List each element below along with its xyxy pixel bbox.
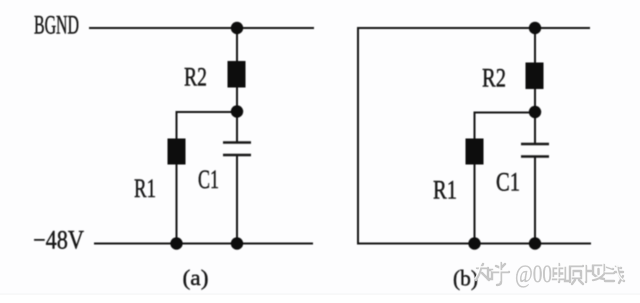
capacitor C1 (b) bottom plate — [521, 155, 549, 158]
resistor R1 (a) body — [168, 139, 186, 165]
junction dot (a) bottom C1 — [231, 237, 243, 249]
wire R2 bottom lead (a) — [236, 86, 238, 142]
wire R1 bottom lead (b) — [474, 165, 476, 244]
svg-text:C1: C1 — [496, 168, 520, 197]
junction dot (b) mid — [529, 106, 541, 118]
svg-text:BGND: BGND — [34, 11, 79, 40]
capacitor C1 (a) top plate — [223, 141, 251, 144]
resistor R2 (b) body — [526, 63, 544, 90]
wire branch to R1 (a) — [177, 112, 238, 139]
junction dot (a) top — [231, 22, 243, 34]
watermark emboss highlight — [475, 262, 623, 281]
wire R2 bottom lead (b) — [534, 88, 536, 146]
wire R2 top lead (a) — [236, 28, 238, 63]
wire C1 bottom lead (a) — [236, 155, 238, 244]
svg-text:@00: @00 — [515, 261, 552, 288]
svg-text:R2: R2 — [482, 64, 506, 93]
node -48V wire (a) bottom rail — [94, 243, 313, 245]
junction dot (b) bottom C1 — [529, 237, 541, 249]
bottom light band — [0, 295, 640, 303]
wire C1 bottom lead (b) — [534, 157, 536, 244]
watermark glyph dian — [553, 264, 569, 282]
wire branch to R1 (b) — [475, 113, 536, 140]
node BGND wire (a) top rail — [89, 27, 314, 29]
watermark glyph hu — [493, 263, 509, 285]
capacitor C1 (b) top plate — [521, 143, 549, 146]
wire (b) left rail box — [358, 28, 591, 244]
svg-text:(a): (a) — [183, 265, 209, 290]
svg-text:−48V: −48V — [33, 226, 84, 255]
svg-text:R1: R1 — [134, 174, 156, 203]
svg-text:(b): (b) — [453, 266, 478, 291]
svg-text:R2: R2 — [184, 63, 207, 92]
resistor R1 (b) body — [466, 139, 484, 165]
junction dot (a) mid — [231, 105, 243, 117]
svg-text:R1: R1 — [433, 176, 457, 205]
watermark glyph yuan — [570, 266, 583, 284]
capacitor C1 (a) bottom plate — [223, 154, 251, 157]
watermark glyph xian — [605, 266, 624, 283]
resistor R2 (a) body — [228, 61, 246, 88]
watermark zhihu — [476, 263, 509, 285]
watermark glyph tiao — [586, 265, 604, 282]
junction dot (a) bottom R1 — [170, 237, 182, 249]
watermark glyph zhi — [476, 264, 492, 280]
junction dot (b) bottom R1 — [468, 237, 480, 249]
wire R2 top lead (b) — [534, 28, 536, 64]
wire R1 bottom lead (a) — [176, 164, 178, 244]
svg-text:C1: C1 — [198, 165, 219, 194]
junction dot (b) top — [529, 22, 541, 34]
